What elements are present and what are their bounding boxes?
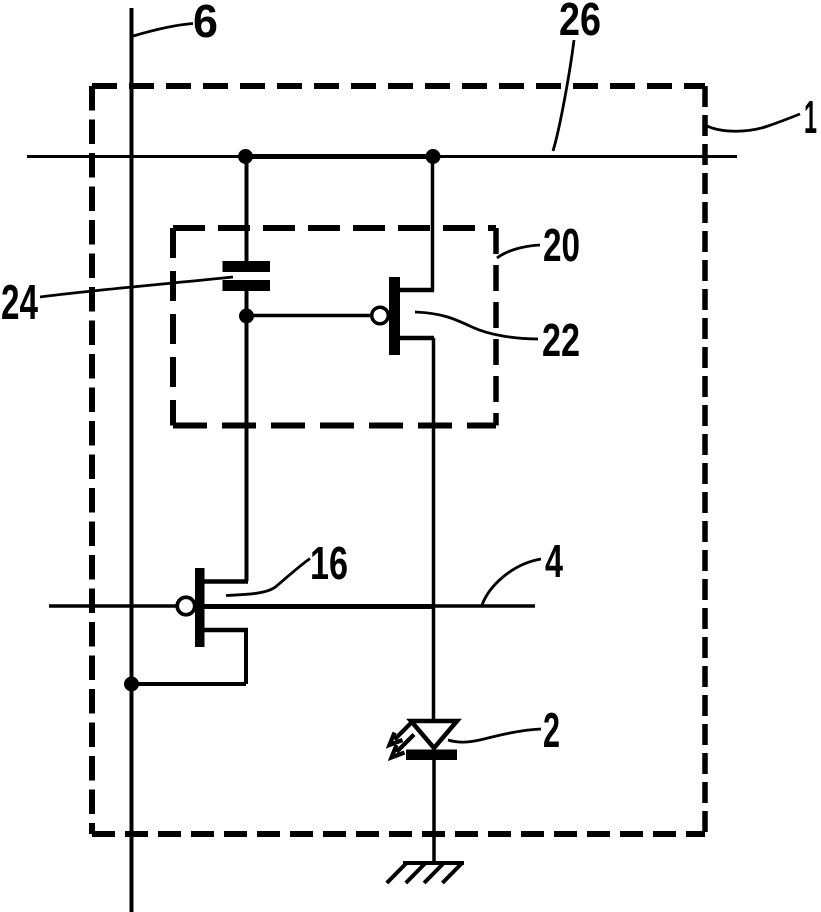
svg-text:26: 26 [559,0,601,45]
svg-text:1: 1 [804,91,817,143]
svg-text:16: 16 [310,537,348,589]
svg-text:2: 2 [543,704,560,758]
svg-text:4: 4 [545,535,563,587]
svg-text:22: 22 [542,314,580,366]
svg-text:6: 6 [193,0,218,47]
svg-text:24: 24 [1,276,38,330]
svg-text:20: 20 [543,219,580,271]
